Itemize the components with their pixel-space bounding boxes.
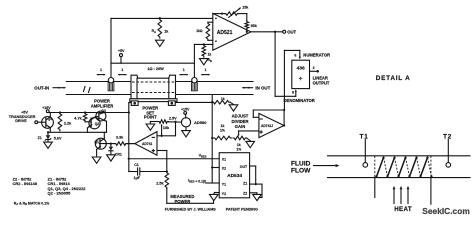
svg-text:SeekIC.com: SeekIC.com bbox=[422, 206, 469, 216]
svg-text:1%: 1% bbox=[236, 148, 241, 152]
svg-text:DIVIDER: DIVIDER bbox=[232, 119, 249, 124]
label FLUID FLOW bbox=[291, 160, 311, 174]
svg-text:3.3k: 3.3k bbox=[116, 135, 124, 139]
svg-text:DRIVE: DRIVE bbox=[15, 119, 27, 123]
wire AD741 plus feedback bbox=[157, 151, 168, 173]
svg-text:+5V: +5V bbox=[118, 49, 125, 53]
node junction RA tap bbox=[159, 17, 161, 19]
flow arrow bbox=[314, 164, 340, 167]
svg-text:+15V: +15V bbox=[181, 107, 190, 111]
watermark SeekIC.com bbox=[422, 206, 469, 216]
svg-text:AD580: AD580 bbox=[194, 120, 207, 125]
node 2.5V bbox=[169, 116, 177, 123]
potentiometer 1k 1% gain bbox=[233, 136, 247, 151]
ground below RB bbox=[200, 59, 209, 65]
svg-text:X2: X2 bbox=[222, 166, 226, 170]
wire 2.5V to AD580 bbox=[169, 121, 182, 123]
wire drive loop bbox=[111, 44, 194, 77]
svg-text:FLOW: FLOW bbox=[291, 167, 311, 174]
svg-text:Z2: Z2 bbox=[243, 192, 247, 196]
svg-text:2.5k: 2.5k bbox=[156, 182, 164, 186]
wire AD741 minus network bbox=[157, 122, 176, 137]
resistor RB 1k bbox=[202, 44, 212, 63]
svg-text:Q3: Q3 bbox=[101, 109, 106, 113]
wire heater left lead bbox=[129, 103, 132, 113]
label NUMERATOR bbox=[303, 52, 330, 57]
label ADJUST DIVIDER GAIN bbox=[232, 114, 249, 130]
wire Z1 node hook bbox=[256, 184, 262, 197]
svg-text:Z1: Z1 bbox=[243, 181, 247, 185]
svg-text:95k: 95k bbox=[251, 24, 258, 28]
transistor Q4 2N2222 bbox=[38, 113, 54, 133]
svg-text:FLUID: FLUID bbox=[291, 160, 311, 167]
svg-text:DETAIL A: DETAIL A bbox=[376, 75, 411, 82]
svg-text:NUMERATOR: NUMERATOR bbox=[303, 52, 330, 57]
heater bobbin base bbox=[130, 99, 177, 106]
terminal transducer drive bbox=[9, 111, 38, 124]
capacitor C1 1uF bbox=[129, 163, 167, 180]
node OUT junction bbox=[274, 31, 283, 33]
svg-text:1k: 1k bbox=[221, 97, 225, 101]
terminal T2 bbox=[443, 133, 452, 167]
transistor Q3 2N2222 bbox=[96, 109, 107, 133]
wire AD521 minus input bbox=[194, 43, 212, 45]
svg-text:2.5V: 2.5V bbox=[169, 116, 177, 120]
wire AD741J plus input bbox=[238, 131, 259, 137]
svg-text:Q1: Q1 bbox=[94, 140, 99, 144]
svg-text:FURNISHED BY J. WILLIAMS: FURNISHED BY J. WILLIAMS bbox=[165, 207, 216, 211]
terminal +15V rail bbox=[42, 106, 51, 113]
svg-text:OUT: OUT bbox=[287, 29, 296, 34]
label VRES bbox=[199, 154, 207, 159]
svg-text:1k: 1k bbox=[237, 143, 241, 147]
svg-text:OUT-IN: OUT-IN bbox=[34, 86, 49, 91]
heater bobbin bbox=[131, 75, 176, 99]
label furnished by bbox=[165, 207, 258, 211]
svg-text:Z1: Z1 bbox=[38, 136, 42, 140]
wire Z2 to ground bbox=[250, 193, 257, 194]
label IRES bbox=[188, 179, 206, 184]
multiplier U5 AD534 box bbox=[219, 153, 249, 198]
ground Z2 bbox=[253, 194, 262, 200]
diode CR1 bbox=[109, 142, 122, 156]
svg-text:1%: 1% bbox=[220, 129, 225, 133]
resistor 1k to ground bbox=[212, 97, 233, 104]
label 1ohm 20W bbox=[147, 67, 164, 71]
pin 8 denominator arrow bbox=[292, 89, 297, 96]
label DENOMINATOR bbox=[284, 98, 315, 103]
svg-text:AD521: AD521 bbox=[217, 30, 233, 36]
ground CR1 bbox=[107, 155, 116, 161]
resistor 2.2k bbox=[58, 113, 72, 131]
heat arrows bbox=[393, 186, 410, 204]
detail tube walls bbox=[328, 156, 471, 178]
svg-text:10k: 10k bbox=[163, 126, 170, 130]
svg-text:AD741J: AD741J bbox=[261, 124, 273, 128]
svg-text:1Ω : 20W: 1Ω : 20W bbox=[147, 67, 164, 71]
op-amp U3 AD741 triangle bbox=[135, 132, 157, 156]
node junction RB tap bbox=[203, 43, 205, 45]
wire bus to X2 bbox=[212, 167, 219, 169]
svg-text:AMPLIFIER: AMPLIFIER bbox=[91, 103, 114, 108]
wire numerator riser bbox=[284, 50, 299, 110]
svg-text:Y1: Y1 bbox=[222, 183, 226, 187]
wire heater right lead bbox=[175, 101, 212, 103]
label DETAIL A bbox=[376, 75, 411, 82]
pin 6 numerator arrow bbox=[294, 50, 301, 59]
svg-text:AD741: AD741 bbox=[142, 142, 152, 146]
wire emitter bus bbox=[47, 131, 107, 133]
resistor 95k bbox=[245, 21, 258, 33]
wire Y2 to ground bbox=[214, 193, 219, 194]
svg-text:1: 1 bbox=[100, 68, 102, 72]
op-amp U4 AD741J triangle bbox=[259, 113, 284, 137]
svg-text:X1: X1 bbox=[222, 158, 226, 162]
svg-text:8: 8 bbox=[292, 90, 294, 94]
label OUT-IN bbox=[34, 86, 66, 91]
wire measured power loop bbox=[167, 189, 214, 204]
svg-text:POINT: POINT bbox=[144, 115, 157, 120]
winding mark 1 left inner bbox=[118, 68, 127, 75]
svg-text:Q2 - 2N3055: Q2 - 2N3055 bbox=[48, 191, 72, 196]
sensor winding T1 left bbox=[108, 78, 114, 91]
ground Z1 bbox=[44, 142, 53, 148]
terminal +15V AD580 bbox=[181, 107, 190, 117]
parts list column 1 bbox=[13, 177, 38, 187]
potentiometer 10k set point bbox=[150, 120, 170, 130]
ground Q1 emitter bbox=[92, 157, 101, 163]
svg-text:1: 1 bbox=[205, 68, 207, 72]
winding mark 1 left outer bbox=[96, 68, 105, 75]
svg-text:1kΩ: 1kΩ bbox=[196, 29, 203, 33]
label RA RB match bbox=[14, 201, 50, 206]
wiper arrow 10k pot bbox=[161, 124, 163, 126]
svg-text:IN OUT: IN OUT bbox=[255, 86, 270, 91]
label HEAT bbox=[394, 206, 412, 213]
wire +15V rail bbox=[48, 111, 129, 113]
svg-text:Q4: Q4 bbox=[48, 117, 53, 121]
zener Z1 5.6V bbox=[38, 132, 62, 142]
wire heater bus bbox=[211, 95, 213, 184]
svg-text:1: 1 bbox=[183, 68, 185, 72]
svg-text:Y2: Y2 bbox=[222, 192, 226, 196]
wire Y1 input bbox=[207, 182, 220, 184]
svg-text:2.2k: 2.2k bbox=[64, 122, 72, 126]
node bus to 1k 1% bbox=[211, 137, 213, 139]
svg-text:÷: ÷ bbox=[299, 76, 303, 83]
ground AD580 bbox=[182, 127, 191, 137]
wire AD521 output bbox=[251, 31, 274, 33]
label LINEAR OUTPUT bbox=[313, 76, 330, 86]
op-amp U1 AD521 triangle bbox=[213, 13, 251, 50]
wire feedback top bbox=[213, 12, 247, 20]
svg-text:GAIN: GAIN bbox=[235, 124, 245, 129]
wire top input bbox=[111, 18, 213, 63]
terminal T1 bbox=[360, 133, 369, 167]
svg-text:T1: T1 bbox=[360, 133, 369, 140]
svg-text:OUTPUT: OUTPUT bbox=[313, 81, 330, 86]
svg-text:+15V: +15V bbox=[42, 106, 51, 110]
ground 1k bbox=[229, 105, 238, 111]
wire AD741J feedback loop bbox=[253, 109, 285, 127]
svg-text:1k: 1k bbox=[221, 124, 225, 128]
svg-text:DENOMINATOR: DENOMINATOR bbox=[284, 98, 315, 103]
pin 2 linear output bbox=[310, 66, 320, 72]
svg-text:CR2 - IN4148: CR2 - IN4148 bbox=[13, 181, 38, 186]
transistor Q2 2N3055 bbox=[85, 117, 100, 133]
svg-text:OUT: OUT bbox=[240, 165, 248, 169]
resistor 4.7k bbox=[74, 113, 87, 122]
ground divider pot bbox=[246, 141, 255, 147]
svg-text:1: 1 bbox=[121, 68, 123, 72]
svg-text:Q2: Q2 bbox=[95, 122, 100, 126]
ground Y2 bbox=[210, 194, 219, 200]
svg-text:4.7k: 4.7k bbox=[74, 117, 82, 121]
svg-text:AD534: AD534 bbox=[227, 173, 242, 179]
sensor winding T2 right bbox=[192, 78, 198, 91]
wire sense line bbox=[128, 111, 130, 171]
wire OUT to denominator bbox=[275, 32, 296, 97]
svg-text:C1: C1 bbox=[134, 163, 139, 167]
winding mark 1 right outer bbox=[201, 68, 210, 75]
label IN OUT bbox=[242, 86, 271, 91]
svg-text:2: 2 bbox=[313, 66, 315, 70]
potentiometer 15k scale trim bbox=[225, 6, 250, 18]
wire VRES to X1 bbox=[129, 158, 219, 160]
ground pot left bbox=[146, 122, 155, 131]
svg-text:6: 6 bbox=[294, 54, 296, 58]
svg-text:T2: T2 bbox=[443, 133, 452, 140]
reference U6 AD580 bbox=[181, 118, 207, 127]
terminal +5V drive bbox=[118, 49, 125, 63]
terminal OUT bbox=[283, 29, 297, 34]
wire pot to ground bbox=[247, 138, 251, 141]
svg-text:436: 436 bbox=[297, 66, 305, 72]
svg-text:POWER: POWER bbox=[174, 199, 190, 204]
wire AD741 output bbox=[127, 143, 135, 145]
resistor 2.5k bbox=[156, 172, 168, 189]
svg-text:PATENT PENDING: PATENT PENDING bbox=[226, 207, 258, 211]
wire Q1 base bbox=[99, 143, 114, 145]
label POWER SET POINT bbox=[142, 106, 158, 120]
flow tube walls bbox=[66, 82, 253, 95]
winding mark 1 right inner bbox=[179, 68, 188, 75]
parts list column 2 bbox=[48, 177, 87, 196]
svg-text:15k: 15k bbox=[242, 6, 249, 10]
resistor 1k 1% divider bbox=[214, 124, 232, 140]
label POWER AMPLIFIER bbox=[91, 99, 114, 109]
heater coil bbox=[375, 156, 433, 204]
ground below RA bbox=[156, 40, 165, 46]
resistor 3.3k bbox=[115, 135, 135, 145]
wire OUT to Z1 bbox=[250, 166, 257, 185]
svg-text:1k: 1k bbox=[208, 53, 212, 57]
resistor RA 1k bbox=[152, 18, 170, 38]
svg-text:5.6V: 5.6V bbox=[54, 136, 62, 140]
resistor RG 1k gain bbox=[196, 22, 213, 40]
svg-text:1μF: 1μF bbox=[134, 176, 141, 180]
label MEASURED POWER bbox=[170, 194, 194, 204]
divider U2 436 box bbox=[292, 60, 310, 88]
transistor Q1 2N2222 bbox=[94, 132, 106, 156]
svg-text:HEAT: HEAT bbox=[394, 206, 412, 213]
tube flow ticks bbox=[84, 86, 91, 93]
